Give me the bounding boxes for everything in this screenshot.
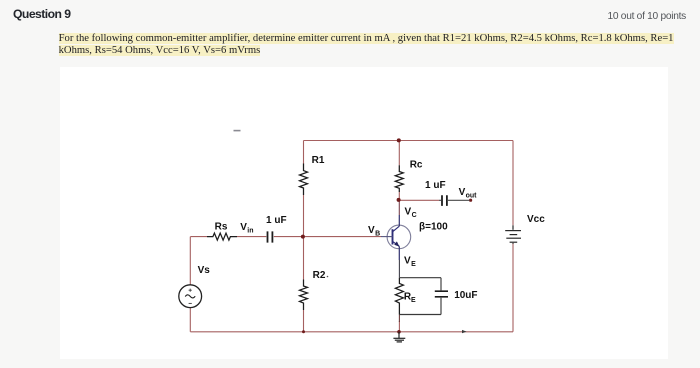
svg-text:R1: R1 [312,155,325,166]
svg-text:R2: R2 [313,270,326,281]
svg-text:V: V [405,207,412,218]
svg-text:V: V [459,187,466,198]
svg-text:1 uF: 1 uF [425,180,446,191]
svg-text:V: V [404,256,411,267]
svg-text:Vcc: Vcc [527,214,545,225]
svg-text:1 uF: 1 uF [266,215,287,226]
svg-text:Vs: Vs [198,265,211,276]
svg-text:V: V [368,225,375,236]
svg-text:B: B [375,231,380,238]
svg-text:Rs: Rs [215,222,228,233]
svg-text:V: V [240,222,247,233]
svg-text:10uF: 10uF [454,290,477,301]
svg-text:out: out [466,192,478,199]
svg-text:E: E [411,261,416,268]
svg-text:C: C [412,212,417,219]
svg-text:E: E [411,297,416,304]
svg-text:Rc: Rc [410,160,423,171]
svg-text:β=100: β=100 [419,221,448,232]
svg-text:in: in [247,228,253,235]
